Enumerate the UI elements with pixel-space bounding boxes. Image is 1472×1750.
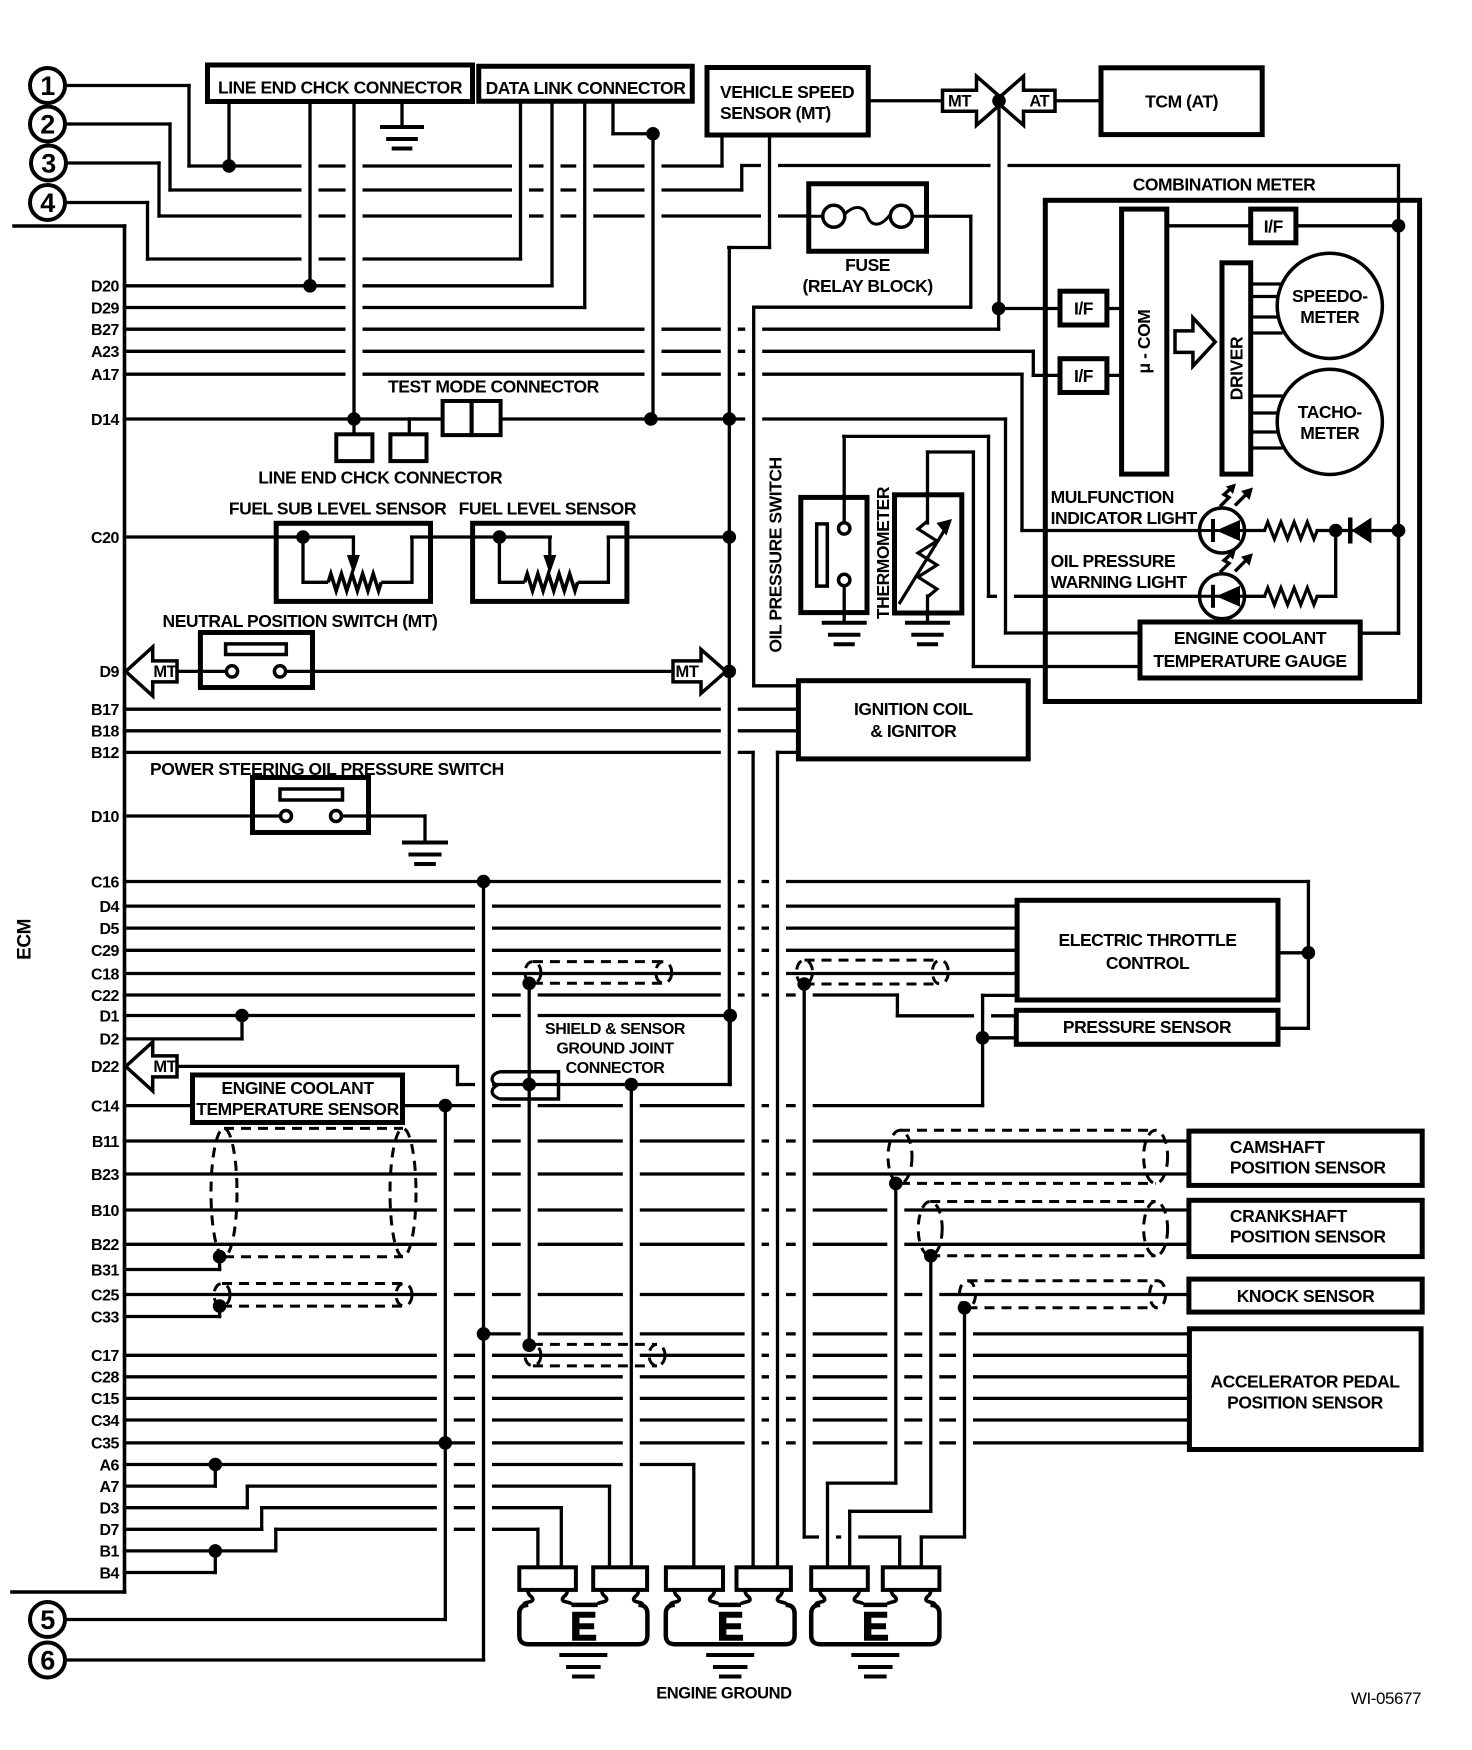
svg-text:MULFUNCTION: MULFUNCTION <box>1051 487 1174 507</box>
svg-text:D14: D14 <box>91 412 120 429</box>
svg-text:B22: B22 <box>91 1237 120 1254</box>
svg-text:D1: D1 <box>99 1008 119 1025</box>
svg-text:D2: D2 <box>99 1032 119 1049</box>
svg-text:THERMOMETER: THERMOMETER <box>873 486 893 619</box>
svg-text:ELECTRIC THROTTLE: ELECTRIC THROTTLE <box>1058 930 1236 950</box>
svg-text:B4: B4 <box>99 1565 119 1582</box>
svg-text:B1: B1 <box>99 1544 119 1561</box>
svg-text:E: E <box>717 1605 743 1649</box>
svg-text:POSITION SENSOR: POSITION SENSOR <box>1230 1227 1386 1247</box>
svg-text:WARNING LIGHT: WARNING LIGHT <box>1051 572 1188 592</box>
svg-text:C17: C17 <box>91 1348 120 1365</box>
svg-text:A7: A7 <box>99 1479 119 1496</box>
svg-text:A6: A6 <box>99 1457 119 1474</box>
svg-text:D9: D9 <box>99 664 119 681</box>
svg-text:1: 1 <box>40 71 55 101</box>
svg-text:ENGINE COOLANT: ENGINE COOLANT <box>221 1078 374 1098</box>
svg-text:POSITION SENSOR: POSITION SENSOR <box>1227 1393 1383 1413</box>
svg-text:(RELAY BLOCK): (RELAY BLOCK) <box>802 276 932 296</box>
svg-text:MT: MT <box>153 1058 176 1076</box>
svg-text:OIL PRESSURE SWITCH: OIL PRESSURE SWITCH <box>766 457 786 652</box>
svg-text:B11: B11 <box>92 1134 120 1151</box>
svg-text:C15: C15 <box>91 1391 120 1408</box>
svg-text:IGNITION COIL: IGNITION COIL <box>854 699 973 719</box>
svg-text:METER: METER <box>1300 307 1360 327</box>
svg-text:B17: B17 <box>91 702 120 719</box>
svg-text:TACHO-: TACHO- <box>1298 402 1363 422</box>
svg-text:DRIVER: DRIVER <box>1227 336 1247 400</box>
svg-text:FUEL LEVEL SENSOR: FUEL LEVEL SENSOR <box>459 499 637 519</box>
svg-text:B23: B23 <box>91 1167 120 1184</box>
svg-text:B31: B31 <box>91 1262 120 1279</box>
svg-text:SHIELD & SENSOR: SHIELD & SENSOR <box>545 1021 686 1038</box>
svg-text:A17: A17 <box>91 367 120 384</box>
svg-text:I/F: I/F <box>1074 366 1094 386</box>
svg-text:& IGNITOR: & IGNITOR <box>870 721 957 741</box>
svg-text:SPEEDO-: SPEEDO- <box>1292 286 1368 306</box>
svg-text:POSITION SENSOR: POSITION SENSOR <box>1230 1158 1386 1178</box>
svg-text:TEMPERATURE SENSOR: TEMPERATURE SENSOR <box>196 1099 399 1119</box>
svg-text:ENGINE COOLANT: ENGINE COOLANT <box>1174 628 1327 648</box>
svg-text:C20: C20 <box>91 530 120 547</box>
svg-text:LINE END CHCK CONNECTOR: LINE END CHCK CONNECTOR <box>258 468 503 488</box>
svg-text:2: 2 <box>40 110 55 140</box>
svg-text:LINE END CHCK CONNECTOR: LINE END CHCK CONNECTOR <box>218 78 463 98</box>
svg-text:VEHICLE SPEED: VEHICLE SPEED <box>720 82 854 102</box>
svg-text:AT: AT <box>1029 92 1049 110</box>
svg-text:COMBINATION METER: COMBINATION METER <box>1133 175 1316 195</box>
svg-text:C29: C29 <box>91 943 120 960</box>
svg-text:C33: C33 <box>91 1309 120 1326</box>
svg-text:C34: C34 <box>91 1413 120 1430</box>
svg-text:CRANKSHAFT: CRANKSHAFT <box>1230 1206 1348 1226</box>
svg-text:D10: D10 <box>91 809 120 826</box>
svg-text:CONTROL: CONTROL <box>1106 953 1190 973</box>
svg-text:SENSOR (MT): SENSOR (MT) <box>720 103 831 123</box>
svg-text:B27: B27 <box>91 322 120 339</box>
svg-text:C22: C22 <box>91 988 120 1005</box>
svg-text:E: E <box>570 1605 596 1649</box>
svg-text:TEST MODE CONNECTOR: TEST MODE CONNECTOR <box>388 377 600 397</box>
svg-text:B12: B12 <box>91 745 120 762</box>
svg-text:ENGINE GROUND: ENGINE GROUND <box>656 1685 792 1703</box>
svg-text:DATA LINK CONNECTOR: DATA LINK CONNECTOR <box>486 78 687 98</box>
svg-text:FUEL SUB LEVEL SENSOR: FUEL SUB LEVEL SENSOR <box>229 499 447 519</box>
svg-text:D3: D3 <box>99 1501 119 1518</box>
svg-text:KNOCK SENSOR: KNOCK SENSOR <box>1237 1286 1375 1306</box>
svg-text:ACCELERATOR PEDAL: ACCELERATOR PEDAL <box>1210 1372 1400 1392</box>
svg-text:PRESSURE SENSOR: PRESSURE SENSOR <box>1063 1017 1232 1037</box>
svg-text:D20: D20 <box>91 279 120 296</box>
svg-text:NEUTRAL POSITION SWITCH (MT): NEUTRAL POSITION SWITCH (MT) <box>163 611 438 631</box>
svg-text:INDICATOR LIGHT: INDICATOR LIGHT <box>1051 508 1198 528</box>
svg-text:4: 4 <box>40 188 55 218</box>
svg-text:5: 5 <box>40 1605 55 1635</box>
svg-text:C14: C14 <box>91 1098 120 1115</box>
svg-text:A23: A23 <box>91 344 120 361</box>
svg-text:C16: C16 <box>91 874 120 891</box>
svg-text:D22: D22 <box>91 1059 120 1076</box>
svg-text:TEMPERATURE GAUGE: TEMPERATURE GAUGE <box>1153 651 1346 671</box>
svg-text:TCM (AT): TCM (AT) <box>1145 92 1218 112</box>
svg-text:3: 3 <box>41 149 56 179</box>
svg-text:C18: C18 <box>91 966 120 983</box>
svg-text:B18: B18 <box>91 724 120 741</box>
svg-text:C35: C35 <box>91 1436 120 1453</box>
svg-text:6: 6 <box>40 1646 55 1676</box>
svg-text:E: E <box>862 1605 888 1649</box>
svg-text:C25: C25 <box>91 1287 120 1304</box>
svg-text:D29: D29 <box>91 300 120 317</box>
svg-text:μ - COM: μ - COM <box>1134 310 1154 374</box>
svg-text:B10: B10 <box>91 1203 120 1220</box>
svg-text:D4: D4 <box>99 899 119 916</box>
svg-text:I/F: I/F <box>1264 217 1284 237</box>
svg-text:METER: METER <box>1300 423 1360 443</box>
svg-text:D5: D5 <box>99 921 119 938</box>
svg-text:FUSE: FUSE <box>845 255 890 275</box>
svg-text:I/F: I/F <box>1074 299 1094 319</box>
svg-text:D7: D7 <box>99 1522 119 1539</box>
svg-text:C28: C28 <box>91 1370 120 1387</box>
svg-text:GROUND JOINT: GROUND JOINT <box>556 1041 674 1058</box>
svg-text:CONNECTOR: CONNECTOR <box>566 1060 666 1077</box>
svg-text:ECM: ECM <box>15 919 36 960</box>
svg-text:MT: MT <box>676 663 699 681</box>
svg-text:MT: MT <box>948 92 971 110</box>
svg-text:CAMSHAFT: CAMSHAFT <box>1230 1137 1325 1157</box>
svg-text:WI-05677: WI-05677 <box>1351 1689 1421 1708</box>
svg-text:OIL PRESSURE: OIL PRESSURE <box>1051 551 1176 571</box>
svg-text:MT: MT <box>153 663 176 681</box>
